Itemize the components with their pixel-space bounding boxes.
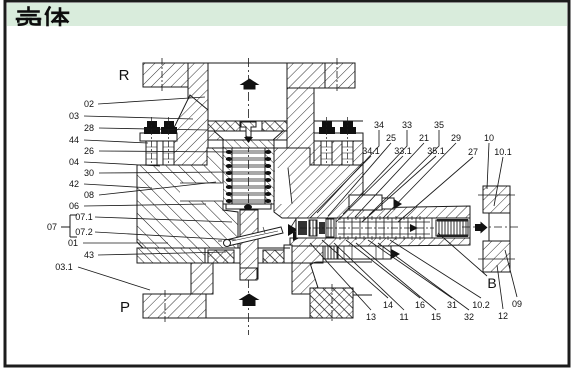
leader 28 [99,128,208,130]
svg-text:03.1: 03.1 [55,262,73,272]
leader 42 [84,184,152,188]
svg-text:25: 25 [386,133,396,143]
small arrow inside [410,224,418,232]
bracket 07 [61,215,77,237]
bottom flange right neck [292,263,320,294]
leader 08 [99,182,216,195]
leader 15 [356,243,436,310]
leader 33.1 [336,156,403,222]
svg-text:42: 42 [69,179,79,189]
svg-text:15: 15 [431,312,441,322]
right flange bottom block [483,241,510,272]
svg-text:43: 43 [84,250,94,260]
svg-text:32: 32 [464,312,474,322]
body left block [137,148,238,248]
bolt plate right [314,133,363,141]
svg-text:35: 35 [434,120,444,130]
leader 31 [368,240,452,298]
leader 16 [346,240,420,298]
leader 26 [99,151,228,152]
bonnet plate wedges [203,131,224,140]
seat plate hatched mid right [292,246,323,263]
bottom flange left neck [191,263,213,294]
leader 12 [497,265,503,309]
bolt left B [161,117,177,180]
right flange top block [483,186,510,213]
arrow right [475,222,488,234]
bolt plate left [140,133,177,141]
svg-text:04: 04 [69,157,79,167]
seat plate outline [137,248,309,263]
seat plate crosshatch left [208,250,234,263]
svg-text:26: 26 [84,146,94,156]
leader 10.1 [494,157,503,206]
svg-text:44: 44 [69,135,79,145]
leader 03.1 [78,267,150,290]
leader 10 [487,143,489,189]
leader 32 [378,243,469,310]
svg-text:34: 34 [374,120,384,130]
spring housing left wall [223,148,232,204]
leader 21 [355,143,424,217]
svg-text:30: 30 [84,168,94,178]
right neck lower [287,88,314,165]
body below cartridge strip [290,238,470,262]
svg-text:27: 27 [468,147,478,157]
title glyph 売 (drawn as paths) [17,8,40,25]
poppet lever [218,227,283,247]
bolt right A [319,117,335,170]
green header band [7,3,567,26]
leader 01 [83,242,168,244]
seat plate crosshatch right [263,250,288,263]
cartridge segment ticks [340,216,420,240]
svg-text:10.2: 10.2 [472,300,490,310]
spring top stem [241,122,256,137]
svg-text:29: 29 [451,133,461,143]
right flange bore [489,213,510,241]
leader 09 [505,250,517,297]
svg-text:03: 03 [69,111,79,121]
top plug boss [349,195,402,210]
svg-text:B: B [487,275,496,291]
svg-text:34.1: 34.1 [362,146,380,156]
top flange left wing [143,58,190,92]
seat plate hatched left end [137,248,205,263]
svg-text:08: 08 [84,190,94,200]
tick 34 [317,130,379,213]
center stem [240,210,258,279]
svg-text:12: 12 [498,311,508,321]
centerline vertical [248,58,250,335]
top flange right neck [287,63,325,120]
cartridge left parts [298,221,307,235]
leader 07.2 [95,232,236,240]
leader 13 [310,243,371,310]
body notch white [180,183,223,201]
leader 10.2 [390,240,481,298]
title glyph 体 (drawn as paths) [46,8,68,26]
leader B [438,233,487,276]
svg-text:10.1: 10.1 [494,147,512,157]
bottom stem piece [240,268,257,280]
spring coils [226,150,271,203]
bonnet plate crosshatch left [208,121,240,131]
svg-text:10: 10 [484,133,494,143]
svg-text:02: 02 [84,99,94,109]
leader 34.1 [310,156,371,218]
cartridge body [291,216,470,240]
leader 03 [84,116,193,119]
leader 06 [84,204,206,206]
svg-text:35.1: 35.1 [427,146,445,156]
svg-text:11: 11 [399,312,408,322]
arrow up top [240,79,260,90]
small arrow down at stem [244,137,253,143]
leader 35.1 [362,156,436,222]
svg-text:07: 07 [47,222,57,232]
cartridge center dash [300,227,434,229]
poppet seat dark mark [293,231,304,241]
leader 07.1 [95,217,232,222]
right bolt boss [314,133,363,165]
lever tip arrow [288,224,298,236]
leader 27 [398,157,473,222]
svg-text:33.1: 33.1 [394,146,412,156]
cartridge left cone [291,219,296,236]
svg-text:31: 31 [447,300,457,310]
cartridge spool segments [336,218,432,238]
svg-text:07.2: 07.2 [75,227,93,237]
left neck flare [168,95,208,178]
svg-text:13: 13 [366,312,376,322]
svg-text:06: 06 [69,201,79,211]
poppet dot [244,205,252,210]
svg-text:09: 09 [512,299,522,309]
arrow up bottom [239,294,260,307]
bottom flange outline [143,288,353,318]
bolt left A [144,117,160,180]
body right mass [274,148,470,218]
leader 43 [98,252,226,255]
bottom plug [323,246,400,259]
bottom flange left wing [143,290,206,322]
spring housing right wall [265,148,274,204]
top flange outline [143,63,355,88]
leader 04 [84,162,160,166]
svg-text:21: 21 [419,133,429,143]
tick 35 [369,130,439,215]
leader 11 [334,243,404,310]
seat plate right cap [284,245,292,263]
white wedge right of spring [275,168,292,204]
bonnet plate crosshatch right [262,121,287,131]
tick 33 [343,130,407,214]
svg-text:07.1: 07.1 [75,212,93,222]
svg-text:28: 28 [84,123,94,133]
svg-text:16: 16 [415,300,425,310]
svg-text:R: R [119,67,130,84]
spring housing cap [223,140,274,148]
leader 29 [383,143,456,218]
svg-text:01: 01 [68,238,78,248]
cavity rounded outline [309,262,372,295]
leader 30 [99,172,228,173]
bottom flange right wing [310,284,353,322]
cartridge right knurl [436,220,468,236]
spring bottom plate [226,204,271,209]
right flange outline [483,186,510,272]
right flange centerline [462,226,521,228]
svg-text:14: 14 [383,300,393,310]
leader 14 [322,240,388,298]
leader 02 [98,97,205,104]
leader 25 [328,143,391,216]
bolt right B [340,117,356,170]
bonnet plate outline [178,121,363,131]
svg-text:33: 33 [402,120,412,130]
leader 44 [84,140,148,143]
right flange ticks [478,195,515,259]
svg-text:P: P [120,299,130,316]
top flange right wing [325,58,355,92]
top flange left neck [188,63,208,119]
